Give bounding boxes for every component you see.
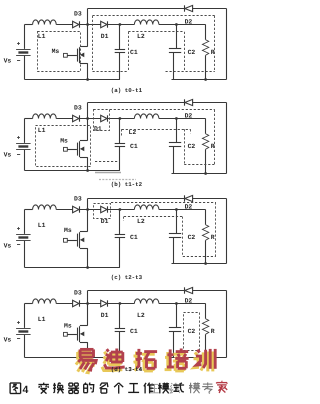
resistor R (a) bbox=[205, 25, 207, 40]
wire node-X riser to charge-pump loop (d) bbox=[87, 291, 89, 304]
svg-text:D3: D3 bbox=[74, 11, 82, 18]
node R-bottom junction dot (b) bbox=[204, 172, 207, 175]
diode D1 (a) bbox=[101, 21, 107, 27]
capacitor C2 (a) bbox=[176, 25, 178, 49]
dashed loop box D1 (b) bbox=[94, 110, 110, 131]
wire L2-to-R (d) bbox=[159, 303, 206, 305]
inductor L1 (c) bbox=[33, 205, 57, 210]
node C1-top junction dot (d) bbox=[119, 302, 122, 305]
svg-text:Vs: Vs bbox=[4, 58, 12, 65]
wire top loop to right edge (a) bbox=[193, 8, 227, 10]
svg-text:L1: L1 bbox=[38, 127, 46, 134]
node C1-top junction dot (a) bbox=[119, 23, 122, 26]
battery Vs (d) bbox=[16, 321, 31, 339]
svg-text:C1: C1 bbox=[130, 328, 138, 335]
inductor L1 (b) bbox=[33, 114, 57, 119]
diode D3 (d) bbox=[73, 300, 79, 306]
dashed loop box C2-R (c) bbox=[182, 217, 184, 257]
svg-text:Vs: Vs bbox=[4, 337, 12, 344]
wire bottom rail left (d) bbox=[25, 357, 120, 359]
wire top rail left segment (c) bbox=[25, 209, 33, 211]
node R-bottom junction dot (c) bbox=[204, 262, 207, 265]
wire bottom rail left (a) bbox=[25, 79, 120, 81]
transistor Ms MOSFET (d) bbox=[64, 304, 88, 358]
dashed loop partition L2 (c) bbox=[124, 216, 183, 218]
capacitor C1 (a) bbox=[119, 25, 121, 50]
svg-text:Vs: Vs bbox=[4, 243, 12, 250]
faint gray watermark remnant line bbox=[95, 172, 121, 174]
inductor L2 (c) bbox=[134, 205, 158, 210]
svg-text:D3: D3 bbox=[74, 105, 82, 112]
resistor R (b) bbox=[205, 119, 207, 134]
circuit mode a bbox=[4, 5, 227, 94]
transistor Ms MOSFET (a) bbox=[64, 25, 88, 80]
wire charge-pump top loop (c) bbox=[88, 198, 185, 200]
node X (d) junction dot bbox=[86, 302, 89, 305]
capacitor C1 (d) bbox=[119, 304, 121, 329]
watermark red character 家 bbox=[217, 381, 228, 393]
wire D1-to-L2 (d) bbox=[107, 303, 134, 305]
battery Vs (b) bbox=[16, 136, 31, 155]
wire D1-to-L2 (b) bbox=[107, 118, 134, 120]
dashed loop box C2 (d) bbox=[184, 313, 200, 351]
wire bottom rail left (b) bbox=[25, 170, 120, 172]
wire L2-to-R (c) bbox=[159, 209, 206, 211]
battery Vs (c) bbox=[16, 227, 31, 245]
svg-text:C1: C1 bbox=[130, 234, 138, 241]
wire L1-to-D3 (c) bbox=[56, 209, 72, 211]
wire L1-to-D3 (d) bbox=[56, 303, 72, 305]
node X (c) junction dot bbox=[86, 208, 89, 211]
inductor L2 (a) bbox=[134, 20, 158, 25]
dashed loop box D1 (c) bbox=[94, 204, 111, 219]
capacitor C2 (b) bbox=[176, 119, 178, 143]
wire L1-to-D3 (b) bbox=[56, 118, 72, 120]
svg-text:Vs: Vs bbox=[4, 152, 12, 159]
wire node-X riser to charge-pump loop (c) bbox=[87, 199, 89, 210]
svg-text:L1: L1 bbox=[38, 222, 46, 229]
wire bottom rail right (b) bbox=[172, 173, 227, 175]
transistor Ms MOSFET (c) bbox=[64, 210, 88, 268]
node OUT junction dot (d) bbox=[175, 302, 178, 305]
wire L1-to-D3 (a) bbox=[56, 24, 72, 26]
diode D3 (c) bbox=[73, 206, 79, 212]
svg-text:R: R bbox=[211, 234, 215, 241]
wire battery-to-bottom-rail (b) bbox=[24, 150, 26, 171]
wire D1-to-L2 (c) bbox=[107, 209, 134, 211]
svg-text:Ms: Ms bbox=[64, 227, 72, 234]
svg-text:4: 4 bbox=[23, 384, 29, 396]
faint gray watermark remnant dots bbox=[99, 179, 136, 181]
dashed loop box output mesh (a) bbox=[93, 15, 215, 17]
node S source-bottom junction dot (b) bbox=[86, 169, 89, 172]
svg-text:D1: D1 bbox=[101, 33, 109, 40]
node C1-top junction dot (b) bbox=[119, 117, 122, 120]
wire right edge vertical (a) bbox=[226, 9, 228, 80]
svg-text:D1: D1 bbox=[94, 126, 102, 133]
wire bottom rail left (c) bbox=[25, 267, 120, 269]
capacitor C1 (c) bbox=[119, 210, 121, 235]
wire right edge vertical (b) bbox=[226, 103, 228, 174]
svg-text:L1: L1 bbox=[38, 316, 46, 323]
capacitor C1 (b) bbox=[119, 119, 121, 144]
node S source-bottom junction dot (a) bbox=[86, 78, 89, 81]
inductor L2 (d) bbox=[134, 299, 158, 304]
wire bottom rail right (c) bbox=[172, 263, 227, 265]
circuit mode b bbox=[4, 99, 227, 188]
dashed loop box output mesh (b) bbox=[110, 109, 215, 111]
svg-text:Ms: Ms bbox=[60, 138, 68, 145]
wire battery-to-top-rail (d) bbox=[24, 304, 26, 328]
wire charge-pump top loop (d) bbox=[88, 290, 185, 292]
svg-text:R: R bbox=[211, 328, 215, 335]
diode D2 (a) bbox=[184, 5, 186, 11]
wire top loop to right edge (d) bbox=[193, 290, 227, 292]
wire battery-to-bottom-rail (c) bbox=[24, 241, 26, 268]
wire top rail left segment (d) bbox=[25, 303, 33, 305]
node X (b) junction dot bbox=[86, 117, 89, 120]
svg-text:(a) t0-t1: (a) t0-t1 bbox=[111, 87, 143, 94]
circuit mode c bbox=[4, 195, 227, 281]
diode D3 (a) bbox=[73, 21, 79, 27]
dashed loop box Vs-L1-Ms (b) bbox=[36, 126, 91, 167]
node OUT junction dot (c) bbox=[175, 208, 178, 211]
svg-text:L2: L2 bbox=[129, 129, 137, 136]
wire battery-to-bottom-rail (d) bbox=[24, 335, 26, 358]
wire right edge vertical (d) bbox=[226, 291, 228, 358]
wire top rail left segment (a) bbox=[25, 24, 33, 26]
wire battery-to-bottom-rail (a) bbox=[24, 56, 26, 80]
dashed loop box L1-Ms (a) bbox=[38, 32, 81, 72]
diode D2 (d) bbox=[184, 287, 186, 293]
wire right edge vertical (c) bbox=[226, 199, 228, 264]
node X (a) junction dot bbox=[86, 23, 89, 26]
wire node-X riser to charge-pump loop (b) bbox=[87, 103, 89, 119]
node S source-bottom junction dot (c) bbox=[86, 266, 89, 269]
diode D1 (c) bbox=[101, 206, 107, 212]
resistor R (d) bbox=[205, 304, 207, 319]
svg-text:Ms: Ms bbox=[64, 323, 72, 330]
wire D1-to-L2 (a) bbox=[107, 24, 134, 26]
svg-text:L1: L1 bbox=[38, 33, 46, 40]
wire top loop to right edge (b) bbox=[193, 102, 227, 104]
wire bottom rail right (d) bbox=[172, 357, 227, 359]
capacitor C2 (c) bbox=[176, 210, 178, 234]
svg-text:L2: L2 bbox=[137, 33, 145, 40]
svg-text:(c) t2-t3: (c) t2-t3 bbox=[111, 274, 143, 281]
resistor R (c) bbox=[205, 210, 207, 225]
wire top loop to right edge (c) bbox=[193, 198, 227, 200]
wire charge-pump top loop (b) bbox=[88, 102, 185, 104]
diode D3 (b) bbox=[73, 115, 79, 121]
svg-text:L2: L2 bbox=[137, 218, 145, 225]
dashed loop partition C2/R (a) bbox=[184, 32, 186, 72]
inductor L1 (a) bbox=[33, 20, 57, 25]
wire battery-to-top-rail (b) bbox=[24, 119, 26, 143]
svg-text:C2: C2 bbox=[188, 234, 196, 241]
wire D3-to-D1 (b) bbox=[79, 118, 101, 120]
node C1-top junction dot (c) bbox=[119, 208, 122, 211]
svg-text:D3: D3 bbox=[74, 196, 82, 203]
inductor L1 (d) bbox=[33, 299, 57, 304]
node S source-bottom junction dot (d) bbox=[86, 356, 89, 359]
wire D3-to-D1 (a) bbox=[79, 24, 101, 26]
svg-text:D1: D1 bbox=[101, 218, 109, 225]
circuit mode d bbox=[4, 287, 227, 373]
svg-text:C1: C1 bbox=[130, 143, 138, 150]
svg-text:L2: L2 bbox=[137, 312, 145, 319]
wire bottom rail right (a) bbox=[172, 79, 227, 81]
inductor L2 (b) bbox=[134, 114, 158, 119]
wire battery-to-top-rail (a) bbox=[24, 25, 26, 49]
watermark logo yellow shadow text bbox=[76, 351, 213, 373]
diode D2 (c) bbox=[184, 195, 186, 201]
wire L2-to-R (b) bbox=[159, 118, 206, 120]
svg-text:(d) t3-t4: (d) t3-t4 bbox=[111, 366, 143, 373]
svg-text:D3: D3 bbox=[74, 290, 82, 297]
svg-text:Ms: Ms bbox=[52, 48, 60, 55]
capacitor C2 (d) bbox=[176, 304, 178, 328]
gray slogan text tail bbox=[189, 382, 213, 393]
figure caption 图4 变换器的各个工作模式 bbox=[10, 383, 184, 396]
wire D3-to-D1 (c) bbox=[79, 209, 101, 211]
wire top rail left segment (b) bbox=[25, 118, 33, 120]
svg-text:D1: D1 bbox=[101, 312, 109, 319]
dashed loop partition C1/L2 (a) bbox=[128, 32, 130, 72]
wire node-X riser to charge-pump loop (a) bbox=[87, 9, 89, 25]
diode D1 (b) bbox=[101, 115, 107, 121]
dashed loop partition L2 (b) bbox=[122, 129, 191, 131]
svg-text:C2: C2 bbox=[188, 328, 196, 335]
dashed loop box charge-pump mesh (c) bbox=[111, 202, 216, 204]
node OUT junction dot (a) bbox=[175, 23, 178, 26]
svg-text:(b) t1-t2: (b) t1-t2 bbox=[111, 181, 143, 188]
wire L2-to-R (a) bbox=[159, 24, 206, 26]
diode D1 (d) bbox=[101, 300, 107, 306]
wire charge-pump top loop (a) bbox=[88, 8, 185, 10]
transistor Ms MOSFET (b) bbox=[64, 119, 88, 171]
gray slogan text behind caption bbox=[149, 383, 180, 393]
wire D3-to-D1 (d) bbox=[79, 303, 101, 305]
wire battery-to-top-rail (c) bbox=[24, 210, 26, 234]
svg-text:C1: C1 bbox=[130, 49, 138, 56]
svg-text:C2: C2 bbox=[188, 143, 196, 150]
node OUT junction dot (b) bbox=[175, 117, 178, 120]
watermark logo red text 易迪拓培训 bbox=[78, 349, 215, 371]
dashed loop box C2-R (b) bbox=[184, 129, 186, 164]
battery Vs (a) bbox=[16, 42, 31, 61]
svg-text:C2: C2 bbox=[188, 49, 196, 56]
node R-bottom junction dot (d) bbox=[204, 356, 207, 359]
node R-bottom junction dot (a) bbox=[204, 78, 207, 81]
diode D2 (b) bbox=[184, 99, 186, 105]
